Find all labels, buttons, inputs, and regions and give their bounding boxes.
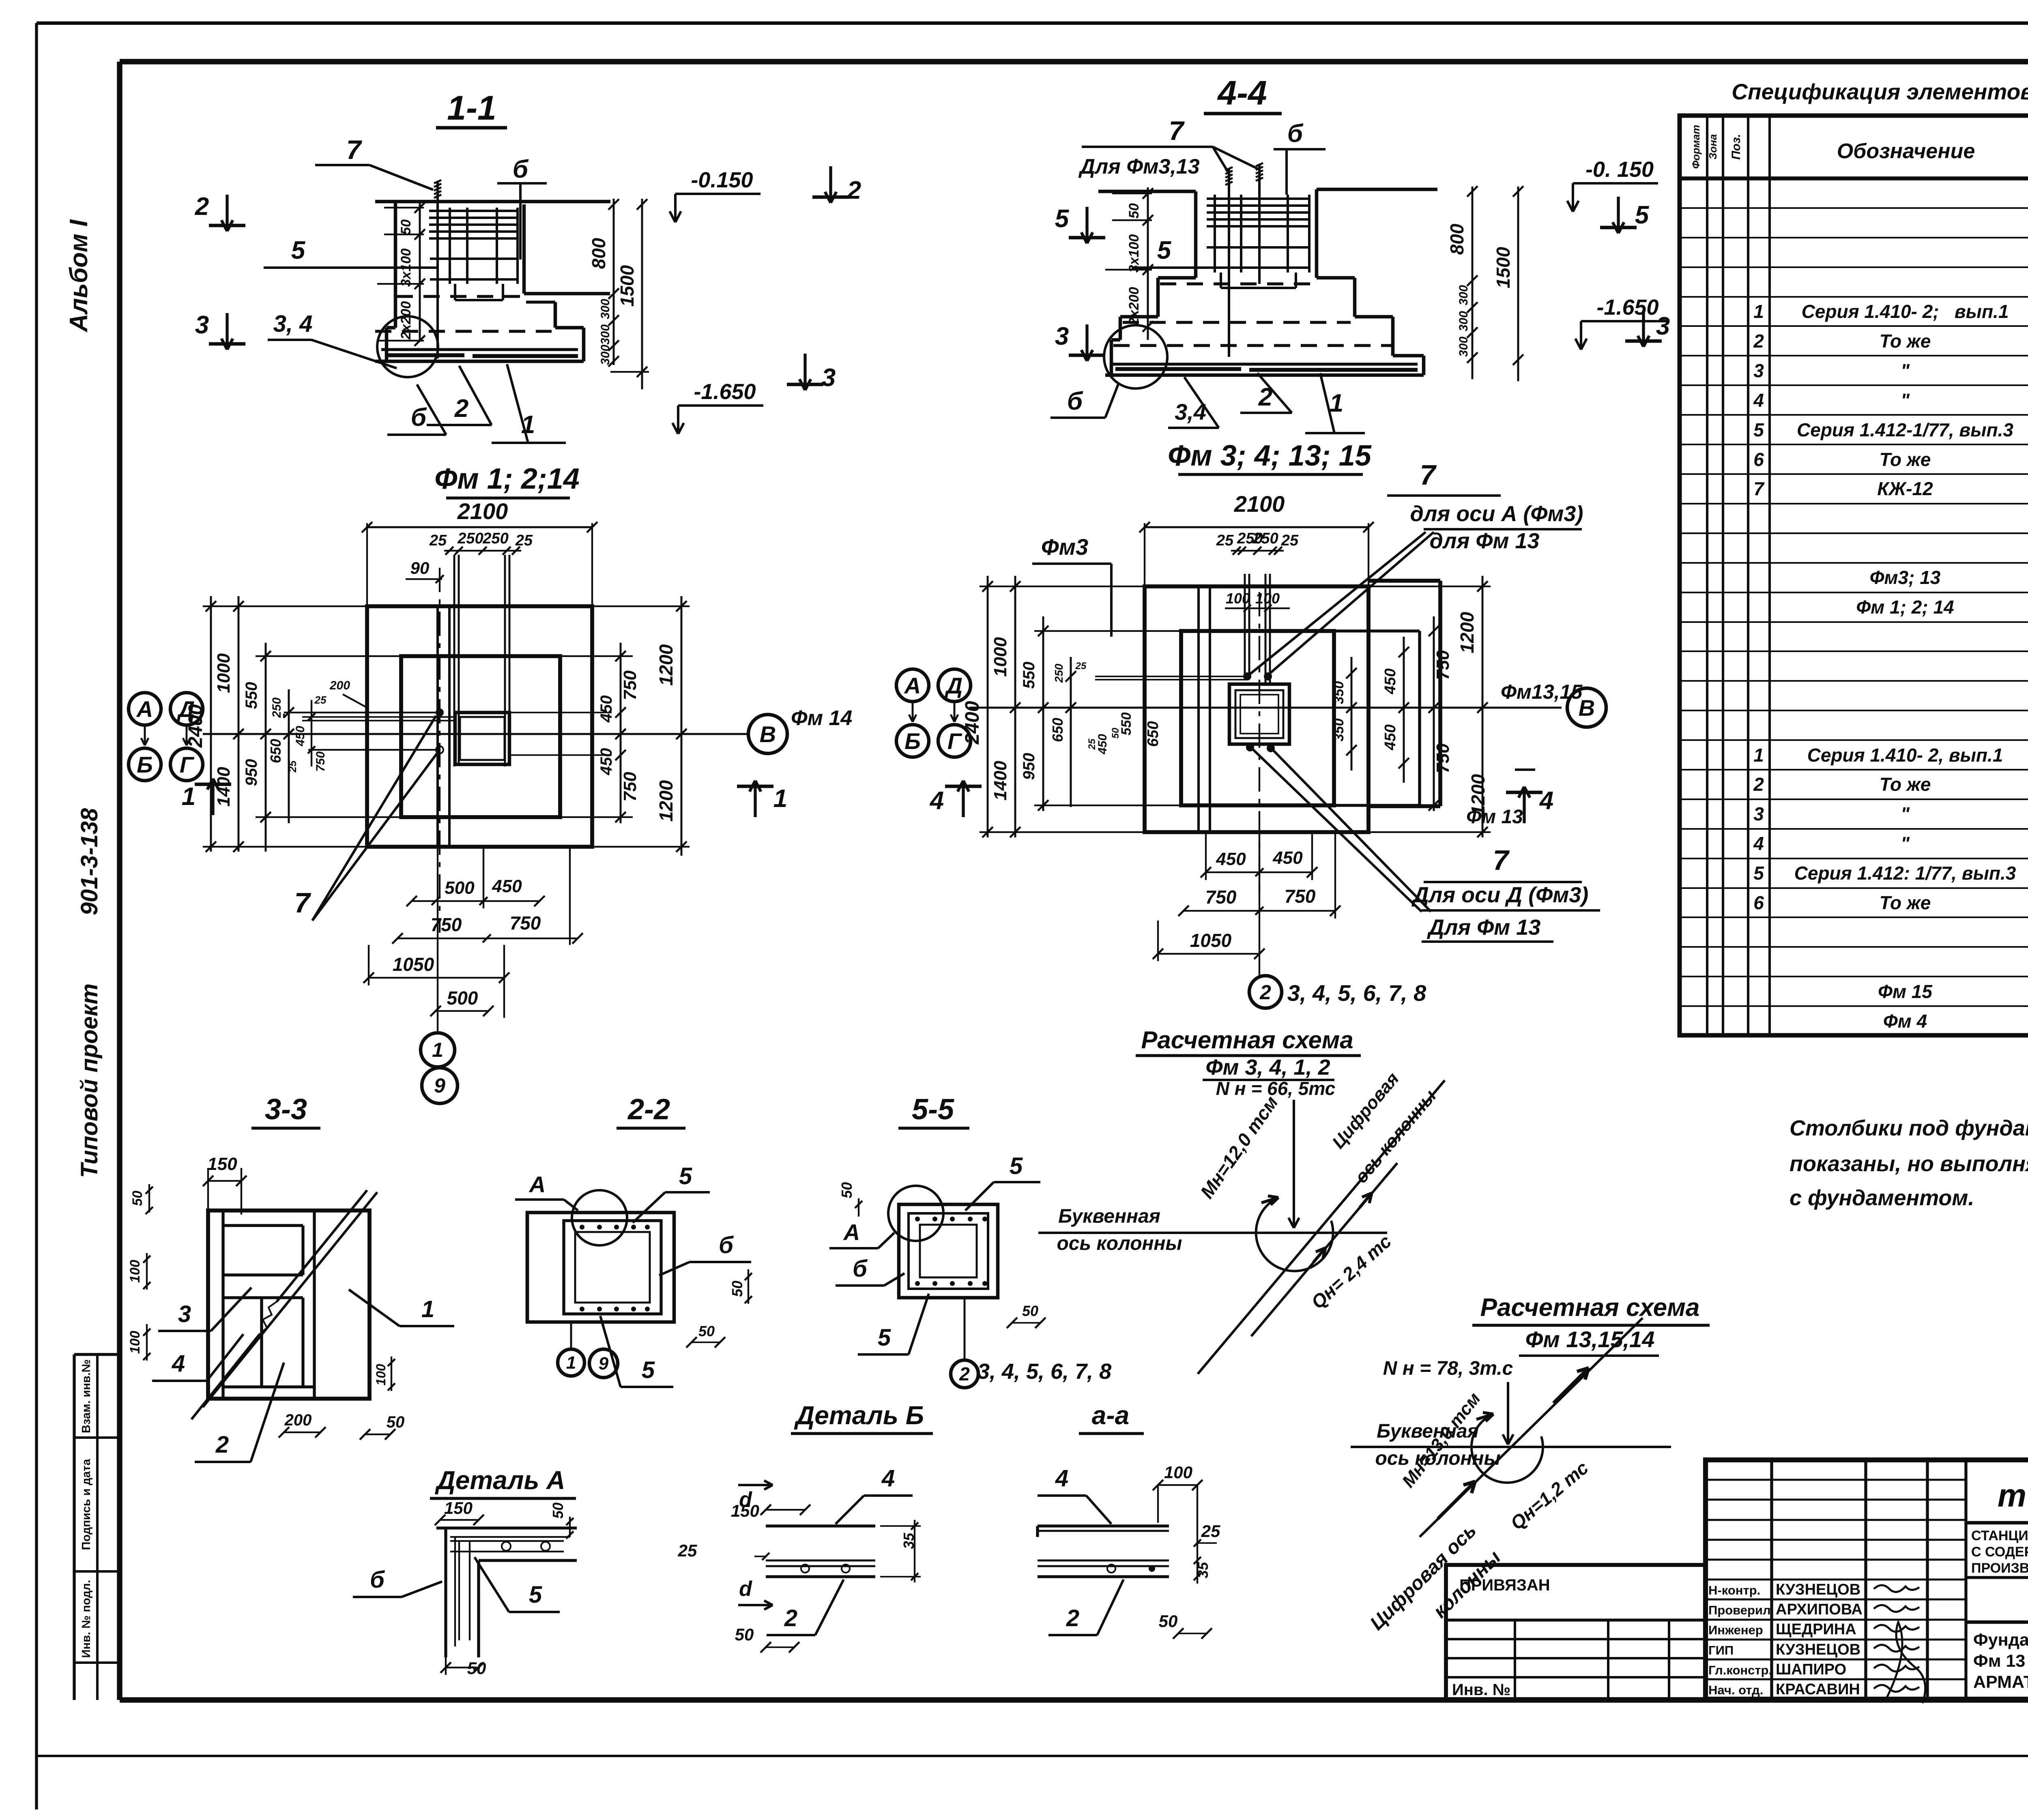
svg-text:2: 2: [1753, 774, 1764, 795]
plan Fm1 bottom circles 1 and 9: [421, 1033, 458, 1103]
svg-text:2: 2: [784, 1605, 797, 1631]
section 1-1 dims left 2x200 3x100 50: [377, 202, 425, 346]
svg-text:7: 7: [1753, 478, 1765, 499]
svg-text:2: 2: [195, 193, 209, 221]
svg-text:7: 7: [346, 135, 363, 165]
plan Fm1 dim 25 250 250 25 top: [429, 530, 533, 555]
svg-text:5: 5: [1753, 419, 1764, 440]
svg-text:25: 25: [515, 532, 533, 549]
svg-text:Типовой проект: Типовой проект: [76, 983, 103, 1178]
svg-text:А: А: [843, 1219, 860, 1245]
svg-text:": ": [1901, 833, 1910, 854]
detail B dims: [678, 1465, 921, 1653]
svg-text:750: 750: [620, 772, 640, 802]
svg-text:1200: 1200: [1457, 612, 1478, 653]
section 4-4 leader 5: [1132, 236, 1230, 268]
svg-text:Фм 13,15,14: Фм 13,15,14: [1525, 1326, 1655, 1352]
svg-text:Серия 1.412: 1/77, вып.3: Серия 1.412: 1/77, вып.3: [1794, 863, 2016, 884]
svg-text:250: 250: [1053, 663, 1065, 683]
section 5-5 circle 2 + 3,4,5,6,7,8: [951, 1298, 1111, 1388]
svg-text:Спецификация элементов монол: Спецификация элементов монолитной констр…: [1732, 79, 2028, 104]
svg-text:3, 4, 5, 6, 7, 8: 3, 4, 5, 6, 7, 8: [1287, 980, 1426, 1006]
svg-text:6: 6: [1753, 892, 1764, 913]
svg-text:Подпись и дата: Подпись и дата: [80, 1459, 93, 1550]
svg-text:ПРОИЗВОДИТЕЛЬНОСТЬЮ 40.0 ТЫС.: ПРОИЗВОДИТЕЛЬНОСТЬЮ 40.0 ТЫС. М3/СУТКИ: [1971, 1560, 2028, 1576]
svg-text:5: 5: [1635, 201, 1650, 229]
svg-text:7: 7: [1420, 459, 1437, 491]
plan Fm1 left dim chains: [185, 596, 401, 852]
section 4-4 footing rebar mesh: [1111, 364, 1418, 370]
svg-text:50: 50: [550, 1502, 566, 1519]
svg-text:Серия 1.412-1/77, вып.3: Серия 1.412-1/77, вып.3: [1797, 419, 2013, 440]
svg-text:350: 350: [1331, 681, 1347, 704]
svg-text:То же: То же: [1880, 449, 1931, 470]
svg-text:3: 3: [1656, 312, 1670, 340]
svg-text:Столбики под фундаментные б: Столбики под фундаментные балки условно …: [1790, 1116, 2028, 1140]
svg-text:550: 550: [1020, 662, 1038, 689]
svg-text:1: 1: [432, 1039, 443, 1061]
plan Fm1 section mark 1 bottom-left: [182, 779, 787, 817]
detail B title: [791, 1401, 933, 1434]
svg-text:2: 2: [454, 395, 468, 423]
section 1-1 title: [436, 89, 507, 128]
svg-text:5: 5: [642, 1357, 655, 1383]
svg-text:2: 2: [959, 1363, 970, 1384]
svg-text:4: 4: [172, 1350, 185, 1377]
svg-text:5: 5: [1157, 236, 1172, 264]
svg-text:А: А: [904, 673, 921, 698]
svg-text:1500: 1500: [1493, 247, 1514, 288]
svg-text:450: 450: [597, 695, 615, 723]
section 1-1 foundation outline: [375, 202, 610, 361]
section 3-3 dims: [127, 1154, 404, 1440]
svg-text:-0. 150: -0. 150: [1585, 157, 1654, 182]
plan Fm3 outer rect: [1145, 586, 1368, 832]
section 2-2 dims 50: [686, 1269, 752, 1348]
svg-text:50: 50: [838, 1182, 855, 1198]
svg-text:450: 450: [492, 876, 522, 896]
plan Fm1 column square: [455, 713, 509, 764]
svg-text:9: 9: [599, 1354, 609, 1374]
svg-text:750: 750: [1433, 743, 1453, 773]
svg-text:То же: То же: [1880, 331, 1931, 352]
spec table row lines: [1680, 208, 2028, 1036]
svg-text:2100: 2100: [457, 498, 508, 524]
plan Fm3 middle rect: [1181, 631, 1334, 805]
section a-a dims: [1038, 1463, 1220, 1639]
svg-text:250: 250: [1252, 530, 1278, 547]
plan Fm1 right dim 1200 1200: [592, 596, 690, 856]
svg-text:б: б: [853, 1256, 868, 1282]
plan Fm3 dim 2100 top: [1139, 491, 1374, 590]
svg-text:-0.150: -0.150: [691, 168, 753, 192]
svg-text:Гл.констр.: Гл.констр.: [1708, 1663, 1772, 1677]
plan Fm3 axis circle V + Фм13,15: [1501, 680, 1606, 727]
calc scheme 2 axes cross: [1351, 1318, 1671, 1537]
section 1-1 hidden dashed steps: [375, 296, 552, 331]
svg-text:Фм 4: Фм 4: [1883, 1011, 1927, 1032]
svg-text:4: 4: [1539, 787, 1553, 815]
title block outer: [1706, 1460, 2028, 1699]
svg-text:Фм 14: Фм 14: [791, 706, 852, 730]
svg-text:б: б: [411, 403, 427, 431]
plan Fm3 mesh strip verticals: [1199, 586, 1210, 832]
svg-text:550: 550: [243, 682, 260, 709]
svg-text:2: 2: [215, 1432, 229, 1458]
svg-text:4: 4: [1753, 833, 1764, 854]
plan Fm1 bottom dim chains: [363, 847, 583, 1033]
svg-text:450: 450: [1216, 849, 1246, 869]
section 2-2 rebar dots: [580, 1225, 650, 1311]
svg-text:200: 200: [284, 1411, 312, 1429]
svg-text:2: 2: [1259, 981, 1271, 1004]
svg-text:Серия 1.410- 2, вып.1: Серия 1.410- 2, вып.1: [1807, 745, 2003, 766]
plan Fm3 anchor dots: [1243, 672, 1275, 752]
svg-text:50: 50: [1126, 203, 1142, 219]
svg-text:50: 50: [398, 219, 414, 235]
calc scheme 1 labels: [1057, 1069, 1440, 1313]
svg-text:550: 550: [1119, 713, 1134, 736]
section 1-1 leader 5: [264, 236, 437, 268]
plan Fm1 dim 2100 top: [362, 498, 597, 610]
section 5-5 title: [898, 1093, 969, 1128]
svg-text:То же: То же: [1880, 774, 1931, 795]
section 1-1 anchor bolt: [434, 180, 441, 358]
plan Fm1 dim 90: [406, 558, 444, 583]
section 5-5 rebar dots: [915, 1217, 987, 1286]
svg-text:750: 750: [314, 751, 327, 772]
svg-text:показаны, но выполняются в: показаны, но выполняются в одной опалубк…: [1790, 1152, 2028, 1176]
section 1-1 leader 3,4: [268, 311, 397, 368]
section 4-4 leader 2: [1240, 373, 1292, 413]
svg-text:50: 50: [698, 1323, 715, 1339]
svg-text:КУЗНЕЦОВ: КУЗНЕЦОВ: [1776, 1641, 1860, 1658]
svg-text:750: 750: [1433, 650, 1453, 680]
svg-text:750: 750: [431, 914, 462, 935]
svg-text:1400: 1400: [990, 761, 1010, 801]
svg-text:Инженер: Инженер: [1708, 1623, 1763, 1637]
svg-text:А: А: [136, 696, 153, 722]
svg-text:Фм 13: Фм 13: [1466, 806, 1523, 828]
detail A title: [430, 1466, 576, 1498]
svg-text:для оси А (Фм3): для оси А (Фм3): [1410, 502, 1583, 526]
svg-text:5: 5: [529, 1582, 542, 1608]
svg-text:100: 100: [127, 1260, 143, 1283]
svg-text:5: 5: [1753, 863, 1764, 884]
svg-text:Инв. № подл.: Инв. № подл.: [80, 1580, 93, 1658]
svg-text:с фундаментом.: с фундаментом.: [1790, 1186, 1974, 1210]
title block verticals left part: [1772, 1460, 1966, 1699]
svg-text:-1.650: -1.650: [694, 380, 756, 404]
section 1-1 leader 1: [492, 364, 566, 443]
svg-text:Деталь Б: Деталь Б: [794, 1401, 924, 1430]
section 5-5 detail circle A: [829, 1186, 943, 1248]
svg-text:Фм 13 ÷ Фм 15. Опалубочные и: Фм 13 ÷ Фм 15. Опалубочные и: [1973, 1651, 2028, 1671]
svg-text:Для оси Д (Фм3): Для оси Д (Фм3): [1411, 883, 1589, 907]
section 2-2 title: [617, 1093, 685, 1128]
svg-text:б: б: [370, 1567, 385, 1593]
svg-text:Инв. №: Инв. №: [1452, 1681, 1510, 1699]
svg-text:То же: То же: [1880, 892, 1931, 913]
svg-text:2100: 2100: [1234, 491, 1285, 517]
section 1-1 detail circle: [377, 316, 438, 377]
svg-text:т п 901- 3 -138: т п 901- 3 -138: [1998, 1477, 2028, 1513]
section 5-5 leaders: [836, 1153, 1040, 1354]
plan Fm1 leader 7: [294, 716, 437, 921]
svg-text:1: 1: [1330, 389, 1343, 417]
svg-text:100: 100: [127, 1331, 143, 1354]
svg-text:3х100: 3х100: [1126, 234, 1142, 273]
svg-text:3: 3: [822, 364, 836, 392]
section 5-5 dims 50: [838, 1182, 1046, 1328]
svg-text:25: 25: [1216, 532, 1234, 549]
svg-text:Б: Б: [904, 728, 921, 754]
svg-text:N н = 66, 5тс: N н = 66, 5тс: [1216, 1078, 1335, 1099]
spec table column lines: [1707, 116, 2028, 1035]
svg-text:": ": [1901, 360, 1910, 381]
section 3-3 outline: [208, 1210, 370, 1399]
svg-text:б: б: [513, 155, 529, 183]
plan Fm1 axis circle V right + Фм14: [748, 706, 852, 753]
svg-text:-1.650: -1.650: [1596, 295, 1658, 320]
svg-text:Формат: Формат: [1690, 125, 1702, 169]
svg-text:5: 5: [679, 1163, 692, 1189]
plan Fm3 leader 7 bottom right: [1253, 749, 1600, 942]
plan Fm1 middle rect: [401, 656, 560, 817]
plan Fm1 axis circles A D B G: [129, 693, 203, 781]
svg-text:500: 500: [445, 878, 475, 898]
svg-text:7: 7: [1169, 116, 1185, 146]
svg-text:2: 2: [847, 176, 861, 204]
svg-text:N н = 78, 3т.с: N н = 78, 3т.с: [1383, 1358, 1513, 1379]
svg-text:Деталь А: Деталь А: [435, 1466, 565, 1495]
svg-text:250: 250: [457, 530, 483, 547]
svg-text:50: 50: [735, 1625, 754, 1644]
svg-text:ось колонны: ось колонны: [1057, 1233, 1182, 1254]
svg-text:1: 1: [182, 783, 195, 811]
svg-text:2х200: 2х200: [1126, 287, 1142, 326]
svg-text:Н-контр.: Н-контр.: [1708, 1583, 1760, 1597]
detail B beam: [766, 1526, 875, 1577]
svg-text:950: 950: [243, 759, 260, 786]
svg-text:25: 25: [286, 760, 299, 773]
svg-text:Фм 15: Фм 15: [1878, 981, 1933, 1002]
svg-text:300: 300: [1457, 337, 1470, 357]
svg-text:Фм 3; 4; 13; 15: Фм 3; 4; 13; 15: [1168, 440, 1372, 472]
svg-text:1050: 1050: [393, 954, 434, 975]
svg-text:Проверил: Проверил: [1708, 1603, 1771, 1617]
detail A dims: [435, 1498, 574, 1678]
svg-text:2400: 2400: [962, 701, 983, 745]
svg-text:КРАСАВИН: КРАСАВИН: [1776, 1681, 1860, 1698]
svg-text:650: 650: [1049, 718, 1066, 742]
svg-text:2: 2: [1066, 1605, 1079, 1631]
plan Fm3 anchor bolt projection lines: [1245, 574, 1270, 685]
svg-text:Буквенная: Буквенная: [1058, 1206, 1160, 1227]
svg-text:В: В: [760, 721, 776, 747]
calc scheme 2 title: [1472, 1294, 1710, 1356]
svg-text:750: 750: [1205, 886, 1237, 908]
svg-text:2: 2: [1753, 331, 1764, 352]
plan Fm3 section marks 4: [929, 770, 1553, 828]
svg-text:450: 450: [1096, 734, 1109, 755]
svg-text:300: 300: [599, 324, 612, 345]
svg-text:5: 5: [1010, 1153, 1023, 1179]
svg-text:50: 50: [729, 1281, 745, 1297]
svg-text:150: 150: [207, 1154, 237, 1174]
svg-text:901-3-138: 901-3-138: [76, 808, 103, 915]
svg-text:С СОДЕРЖАНИЕМ ЖЕЛЕЗА ДО 10 М: С СОДЕРЖАНИЕМ ЖЕЛЕЗА ДО 10 МГ/Л: [1971, 1544, 2028, 1560]
svg-text:50: 50: [387, 1413, 405, 1431]
plan Fm3 wider rect for Фм13-15: [1334, 581, 1440, 806]
svg-text:300: 300: [599, 299, 612, 319]
svg-text:25: 25: [314, 694, 327, 706]
svg-text:1: 1: [773, 785, 787, 813]
svg-text:АРМАТУРНЫЕ ЧЕРТЕЖИ.: АРМАТУРНЫЕ ЧЕРТЕЖИ.: [1973, 1672, 2028, 1692]
section 1-1 leader 7: [315, 135, 433, 190]
section 1-1 leader б bottom: [387, 384, 446, 435]
section 3-3 leaders 3 4 2 1: [152, 1288, 454, 1462]
svg-text:Фм3: Фм3: [1041, 534, 1088, 560]
section 4-4 leader б top: [1274, 120, 1326, 195]
title block left row lines: [1706, 1480, 1966, 1679]
svg-text:650: 650: [1145, 721, 1162, 747]
svg-text:350: 350: [1331, 719, 1347, 742]
svg-text:б: б: [719, 1232, 734, 1258]
svg-text:3х100: 3х100: [398, 249, 414, 287]
section 1-1 leader б top: [497, 155, 547, 260]
detail B d-d cut marks: [738, 1481, 773, 1610]
svg-text:1-1: 1-1: [447, 89, 496, 127]
section 1-1 dim 1500: [610, 199, 649, 389]
section 4-4 anchor bolts: [1225, 163, 1263, 357]
section 4-4 level -0.150: [1573, 182, 1658, 185]
svg-text:100: 100: [374, 1364, 388, 1386]
title block TP 901-3-138 header: [1966, 1477, 2028, 1523]
svg-text:50: 50: [1022, 1303, 1038, 1319]
section cut marks around 4-4: [1055, 197, 1670, 361]
svg-text:800: 800: [1446, 223, 1467, 255]
svg-text:450: 450: [1382, 668, 1399, 694]
section 4-4 rebar cage: [1207, 195, 1310, 288]
detail A leaders: [353, 1557, 560, 1612]
svg-text:Для Фм3,13: Для Фм3,13: [1078, 155, 1199, 178]
plan Fm1 axis dash-dot vertical: [439, 568, 440, 933]
section 1-1 dim 800/300/300/300: [588, 199, 619, 367]
svg-text:Взам. инв.№: Взам. инв.№: [80, 1359, 93, 1433]
svg-text:1: 1: [1753, 745, 1764, 766]
plan Fm1 axis line horizontal: [203, 733, 748, 735]
plan Fm3 axis dash-dot vertical: [1259, 592, 1260, 892]
svg-text:ЩЕДРИНА: ЩЕДРИНА: [1776, 1621, 1856, 1638]
svg-text:450: 450: [1382, 724, 1399, 750]
svg-text:1000: 1000: [214, 653, 234, 693]
title block drawing name: [1973, 1630, 2028, 1692]
svg-text:б: б: [1067, 387, 1083, 415]
svg-text:300: 300: [599, 345, 612, 365]
svg-text:3: 3: [1753, 360, 1764, 381]
svg-text:А: А: [528, 1172, 546, 1197]
svg-text:4: 4: [881, 1465, 895, 1492]
svg-text:1500: 1500: [617, 265, 638, 307]
svg-text:Фм 3, 4, 1, 2: Фм 3, 4, 1, 2: [1205, 1055, 1330, 1080]
svg-text:Поз.: Поз.: [1729, 134, 1743, 160]
svg-text:5: 5: [1055, 205, 1070, 233]
svg-text:Фм 1; 2;14: Фм 1; 2;14: [434, 463, 580, 495]
svg-text:150: 150: [731, 1501, 759, 1520]
section 4-4 leader 1: [1305, 373, 1365, 433]
section 4-4 leader 3,4: [1168, 377, 1219, 428]
svg-text:Обозначение: Обозначение: [1837, 140, 1975, 163]
svg-text:9: 9: [434, 1074, 445, 1097]
svg-text:КУЗНЕЦОВ: КУЗНЕЦОВ: [1776, 1581, 1860, 1598]
privyazan box: [1446, 1565, 1706, 1699]
svg-text:100: 100: [1226, 590, 1250, 607]
svg-text:Фундаменты Фм 1÷ Фм 4;: Фундаменты Фм 1÷ Фм 4;: [1973, 1630, 2028, 1650]
svg-text:1: 1: [421, 1296, 434, 1322]
plan Fm3 label Фм3 with leader: [1032, 534, 1111, 637]
svg-text:100: 100: [1255, 590, 1280, 607]
section 1-1 level -1.650: [678, 404, 763, 407]
section 4-4 dims left 2x200 3x100 50: [1105, 187, 1153, 340]
svg-text:200: 200: [329, 679, 350, 692]
svg-text:450: 450: [294, 726, 307, 747]
svg-text:Для Фм 13: Для Фм 13: [1427, 915, 1541, 940]
svg-text:25: 25: [429, 532, 447, 549]
svg-text:25: 25: [678, 1541, 697, 1560]
svg-text:5-5: 5-5: [912, 1093, 954, 1126]
svg-text:1050: 1050: [1190, 930, 1232, 951]
section 4-4 dim 1500: [1493, 186, 1523, 381]
svg-text:1000: 1000: [990, 637, 1010, 677]
calc scheme 1 axes cross: [1038, 1080, 1445, 1374]
svg-text:Д: Д: [177, 696, 195, 722]
svg-text:КЖ-12: КЖ-12: [1877, 478, 1933, 499]
svg-text:90: 90: [410, 558, 430, 577]
svg-text:300: 300: [1457, 311, 1470, 331]
plan Fm3 left dim chains: [962, 576, 1247, 837]
svg-text:Расчетная схема: Расчетная схема: [1141, 1026, 1353, 1054]
svg-text:Нач. отд.: Нач. отд.: [1708, 1683, 1763, 1697]
svg-text:Расчетная схема: Расчетная схема: [1480, 1294, 1700, 1322]
section 4-4 leader б bottom: [1051, 383, 1119, 418]
svg-text:для Фм 13: для Фм 13: [1430, 529, 1540, 553]
margin stamp boxes: [74, 1354, 120, 1700]
calc scheme 2 labels: [1366, 1389, 1592, 1635]
plan Fm3 axis line horizontal: [969, 707, 1562, 709]
plan Fm1 small dims near column left: [294, 679, 455, 772]
section 2-2 outline: [527, 1213, 674, 1322]
section 4-4 foundation outline: [1098, 189, 1437, 375]
svg-text:б: б: [1287, 120, 1304, 148]
svg-text:ПРИВЯЗАН: ПРИВЯЗАН: [1459, 1576, 1550, 1594]
plan Fm3 axis circles: [896, 669, 971, 757]
svg-text:7: 7: [294, 887, 312, 919]
plan Fm3 bottom circle 2 + 3,4,5,6,7,8: [1249, 976, 1426, 1008]
svg-text:Серия 1.410- 2; вып.1: Серия 1.410- 2; вып.1: [1802, 301, 2009, 322]
section 4-4 dim 800/300/300/300: [1446, 186, 1478, 379]
svg-text:4-4: 4-4: [1217, 74, 1267, 112]
plan Fm1 anchor bolt projection lines: [454, 555, 509, 766]
svg-text:": ": [1901, 390, 1910, 411]
svg-text:1200: 1200: [655, 644, 677, 686]
svg-text:3: 3: [1055, 322, 1069, 350]
spec row 7 Анкер А1: [1753, 474, 2028, 505]
svg-text:3: 3: [178, 1301, 191, 1327]
svg-text:100: 100: [1164, 1463, 1192, 1482]
plan Fm3 title: [1168, 440, 1372, 474]
section cut marks around 1-1: [195, 166, 861, 392]
